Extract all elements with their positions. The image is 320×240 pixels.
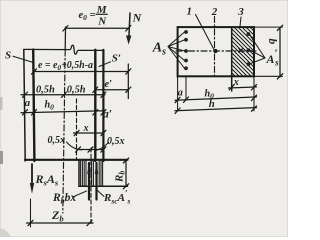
leader S to left bar xyxy=(13,56,33,62)
h dimension line (section) xyxy=(175,108,257,111)
leader S' to right bar xyxy=(99,62,111,67)
centre dot xyxy=(213,49,217,53)
tick a right xyxy=(184,97,189,102)
tick b bottom xyxy=(277,74,282,79)
tick Rb top xyxy=(123,158,128,163)
tick 0,5h right xyxy=(101,92,106,97)
extension: As bar line down xyxy=(185,76,187,100)
b bottom extension xyxy=(254,75,283,77)
compressed zone left edge xyxy=(231,28,233,91)
tick 0,5h centre xyxy=(62,92,67,97)
svg-text:N: N xyxy=(97,16,107,28)
svg-text:N: N xyxy=(132,11,143,25)
tick 0,5x right xyxy=(101,147,106,152)
tick Zb right xyxy=(87,220,92,225)
extension: section left edge down xyxy=(177,76,179,111)
tick x left xyxy=(229,85,234,90)
svg-text:0,5h: 0,5h xyxy=(67,84,86,95)
svg-text:3: 3 xyxy=(237,6,244,18)
tick 0,5x centre xyxy=(88,147,93,152)
Rb stress dimension line (right) xyxy=(125,161,127,187)
compressed zone hatch area xyxy=(232,27,254,76)
0,5x dimension line xyxy=(77,149,103,151)
rebar dots As' (right, 3) xyxy=(247,32,251,66)
svg-text:e = e0+0,5h-a: e = e0+0,5h-a xyxy=(38,60,93,72)
extension: section right edge down xyxy=(253,76,255,111)
x dimension line xyxy=(74,132,104,134)
e dimension line xyxy=(34,71,128,73)
tick a left xyxy=(175,97,180,102)
fraction bar xyxy=(96,13,108,15)
svg-text:2: 2 xyxy=(211,6,218,18)
tick e right xyxy=(126,69,131,74)
tick e' right xyxy=(126,87,131,92)
As label fan leaders xyxy=(168,32,184,68)
tick e0 right xyxy=(126,26,131,32)
tick Zb left xyxy=(28,220,33,225)
svg-text:a′: a′ xyxy=(103,109,112,121)
section outline xyxy=(178,27,254,76)
column right face xyxy=(102,50,104,161)
Rsc*As' force arrow 2 xyxy=(95,163,97,200)
tick h0 at left bar xyxy=(32,110,37,115)
tick e left xyxy=(32,69,37,74)
scan artifact bottom-left corner xyxy=(0,228,11,237)
svg-text:b: b xyxy=(266,39,278,45)
leader Rb*bx label xyxy=(74,191,87,197)
Rb*bx force arrow 1 xyxy=(88,163,90,200)
tick h left xyxy=(175,108,180,113)
tick b top xyxy=(277,25,282,30)
column left face xyxy=(24,50,25,161)
tick x right xyxy=(252,85,257,90)
tick Rb bottom xyxy=(123,184,128,189)
N arrowhead xyxy=(126,36,131,45)
e' dimension line xyxy=(95,89,128,91)
tick h0 at right face xyxy=(101,110,106,115)
leader from right 0,5x label xyxy=(95,143,109,151)
Zb left extension line xyxy=(30,199,32,227)
column top edge with break xyxy=(24,45,104,54)
stress block hatching xyxy=(81,161,103,186)
compressed zone centre line (dash) xyxy=(90,148,92,224)
As' label fan leaders xyxy=(250,35,265,64)
centerline (dash-dot), column axis xyxy=(64,27,66,50)
x dimension line (section) xyxy=(229,87,257,88)
tick h0 at left face xyxy=(23,110,28,115)
svg-text:S: S xyxy=(5,50,11,62)
Zb dimension line xyxy=(27,222,94,224)
axis 2 vertical (dash-dot) xyxy=(214,17,216,78)
stress block bottom edge (extended right for Rb dim) xyxy=(79,185,128,187)
rebar S' right bar line xyxy=(94,50,96,161)
svg-text:1: 1 xyxy=(187,6,193,18)
svg-text:a: a xyxy=(25,97,31,109)
svg-text:0,5x: 0,5x xyxy=(107,136,125,147)
tick h right xyxy=(252,106,257,111)
tick 0,5x left xyxy=(76,147,81,152)
force N line with arrow xyxy=(129,13,130,37)
section horizontal axis (dash-dot) xyxy=(176,50,256,52)
x mark at zone centroid xyxy=(239,48,243,52)
h0 dimension line (section) xyxy=(175,97,257,100)
b top extension xyxy=(254,26,283,28)
tick h0 at right bar xyxy=(93,110,98,115)
scan artifact left edge 1 xyxy=(0,97,3,110)
RsAs tension force arrow xyxy=(31,164,33,185)
svg-text:0,5x: 0,5x xyxy=(48,135,66,146)
svg-text:e0 =: e0 = xyxy=(79,10,96,22)
tick h0 right xyxy=(252,95,257,100)
tick x right xyxy=(101,130,106,135)
compressed zone boundary (dash line) xyxy=(76,99,78,160)
svg-text:S′: S′ xyxy=(112,53,121,65)
rebar S left bar line xyxy=(33,50,34,161)
column bottom edge (extended right for Rb dim) xyxy=(25,159,128,161)
leader 1 to centre dot xyxy=(196,15,214,50)
stress block outline left edge xyxy=(78,161,80,187)
leader 3 to hatch zone xyxy=(240,17,241,27)
rebar dots As (left column of 5) xyxy=(184,30,188,70)
tick e' left xyxy=(93,87,98,92)
leader from left 0,5x label xyxy=(67,142,82,150)
tick e0 left xyxy=(63,26,68,32)
svg-text:a: a xyxy=(178,87,183,98)
e0 dimension line (top) xyxy=(65,27,128,29)
h0 dimension line xyxy=(21,111,105,113)
svg-text:e′: e′ xyxy=(105,79,113,90)
N force extension line through e/e' dims xyxy=(127,64,129,99)
scan artifact left edge 2 xyxy=(0,151,3,164)
svg-text:Rbbx: Rbbx xyxy=(52,192,76,206)
svg-text:h: h xyxy=(209,98,215,110)
b dimension line (right) xyxy=(279,28,281,77)
tick x left xyxy=(74,130,79,135)
svg-text:0,5h: 0,5h xyxy=(36,84,55,95)
svg-text:x: x xyxy=(233,77,239,88)
leader RscAs' label xyxy=(97,190,104,196)
tick 0,5h left xyxy=(23,92,28,97)
0,5h dimension line xyxy=(21,94,105,96)
svg-text:x: x xyxy=(83,123,89,134)
